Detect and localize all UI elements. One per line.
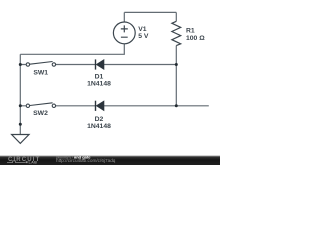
switch SW1 (26, 62, 55, 67)
wire SW1 to D1 (20, 64, 95, 66)
svg-text:1N4148: 1N4148 (87, 123, 111, 130)
svg-text:V1: V1 (138, 26, 147, 33)
diode D2 (96, 101, 105, 111)
diode D1 (96, 59, 105, 69)
wire left rail to ground (19, 54, 21, 134)
svg-text:LAB: LAB (29, 160, 38, 164)
wire D1 anode to R1 rail (104, 64, 176, 66)
junction output node (175, 104, 178, 107)
voltage source V1 (113, 22, 135, 44)
junction SW1/rail (19, 63, 22, 66)
wire R1 top stub (175, 12, 177, 21)
junction SW2/rail (19, 104, 22, 107)
footer bar (0, 156, 220, 165)
wire D2 anode to node and output stub (104, 105, 209, 107)
svg-text:1N4148: 1N4148 (87, 81, 111, 88)
svg-text:5 V: 5 V (138, 33, 149, 40)
switch SW2 (26, 103, 55, 108)
svg-text:http://circuitlab.com/c/6j7adq: http://circuitlab.com/c/6j7adq (56, 158, 116, 163)
svg-text:SW1: SW1 (33, 70, 48, 77)
svg-text:D1: D1 (95, 74, 104, 81)
ground (12, 135, 29, 144)
svg-text:R1: R1 (186, 28, 195, 35)
wire R1 bottom to output node (175, 46, 177, 106)
wire V1 top stub (123, 12, 125, 22)
wire top horizontal V1 to R1 (124, 11, 176, 13)
resistor R1 (172, 21, 181, 45)
wire V1 bottom stub and left horizontal (20, 44, 124, 55)
wire SW2 to D2 (20, 105, 95, 107)
svg-text:100 Ω: 100 Ω (186, 35, 205, 42)
footer logo waveform + LAB (7, 161, 26, 163)
junction ground/rail (19, 123, 22, 126)
svg-text:SW2: SW2 (33, 110, 48, 117)
junction D1/R1 node (175, 63, 178, 66)
